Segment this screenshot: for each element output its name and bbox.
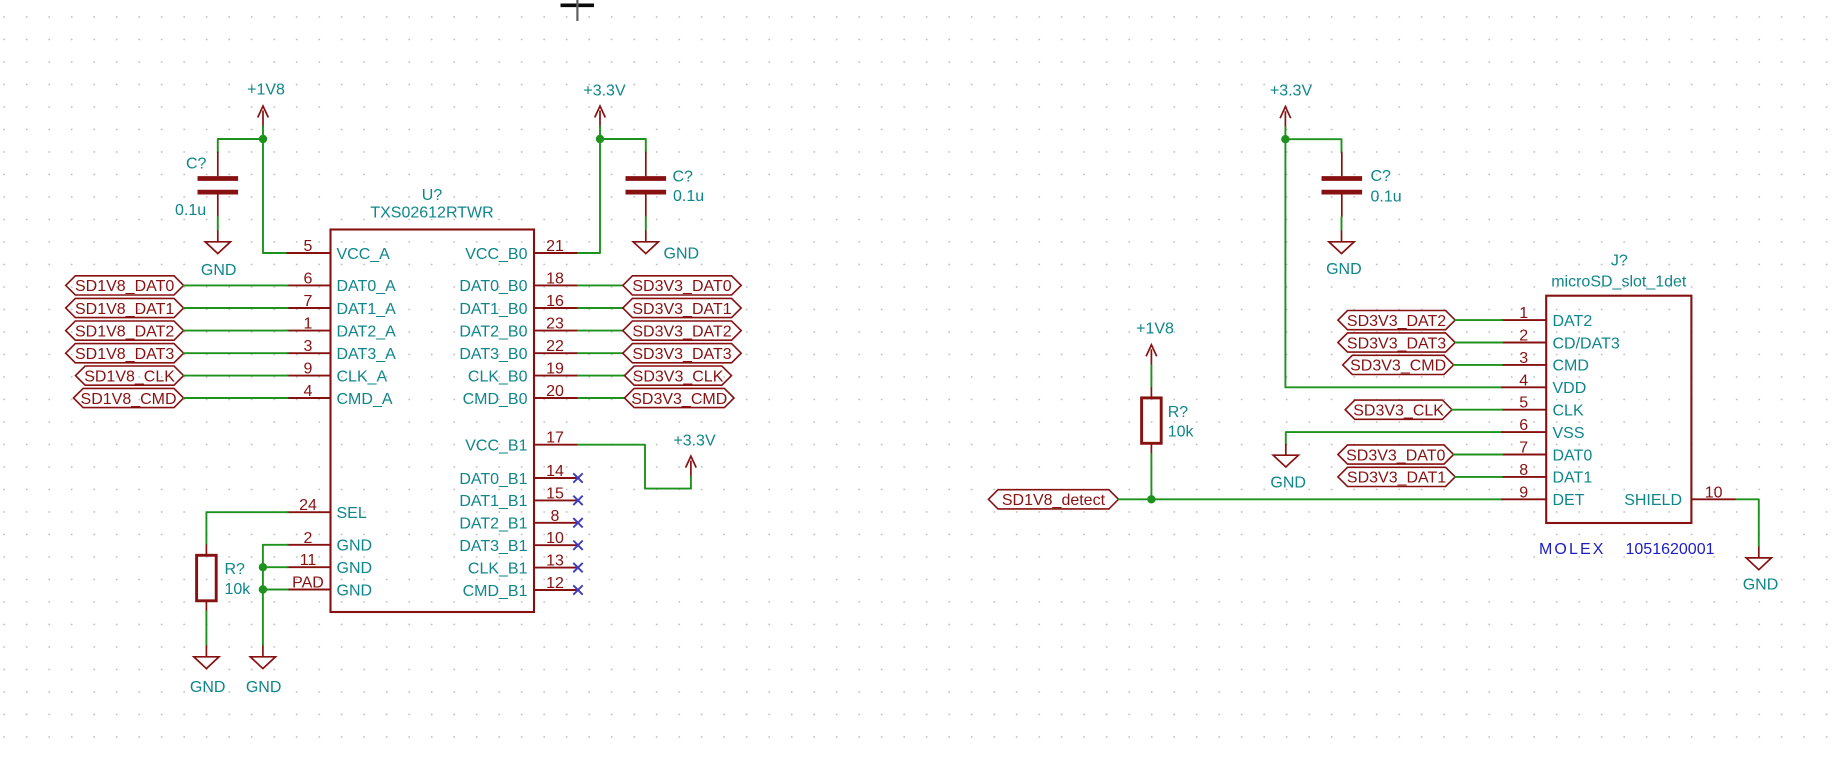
no-connect X on pin 12 CMD_B1 — [573, 585, 582, 594]
U1 pin PAD (GND) left side — [287, 575, 372, 600]
no-connect X on pin 15 DAT1_B1 — [573, 496, 582, 505]
U1 pin 4 (CMD_A) left side — [287, 383, 393, 408]
svg-text:DAT2_B0: DAT2_B0 — [459, 323, 527, 340]
svg-text:GND: GND — [337, 582, 373, 599]
svg-text:U?: U? — [422, 187, 443, 204]
wire SD1V8_DAT2 to U1 — [184, 330, 288, 332]
svg-text:J?: J? — [1611, 253, 1628, 270]
svg-text:10: 10 — [1705, 484, 1723, 501]
wire GND pin 11 stub — [263, 566, 288, 568]
svg-text:1051620001: 1051620001 — [1626, 541, 1715, 558]
wire +3.3V to J1 VDD — [1285, 139, 1502, 387]
wire +1V8 to C? — [218, 139, 263, 152]
wire C? to GND — [217, 217, 219, 231]
power symbol GND (VSS) — [1270, 444, 1306, 491]
svg-text:5: 5 — [304, 238, 313, 255]
svg-text:SD3V3_DAT1: SD3V3_DAT1 — [1347, 470, 1446, 487]
svg-text:CMD_B1: CMD_B1 — [463, 583, 528, 600]
J1 pin 10 (SHIELD) — [1624, 484, 1736, 509]
J1 pin 6 (VSS) — [1501, 417, 1584, 442]
net label SD3V3_DAT0 — [623, 276, 741, 295]
no-connect X on pin 14 DAT0_B1 — [573, 473, 582, 482]
svg-text:SD3V3_DAT0: SD3V3_DAT0 — [632, 278, 731, 295]
wire J1 VSS to GND — [1286, 432, 1502, 444]
svg-text:microSD_slot_1det: microSD_slot_1det — [1551, 273, 1687, 290]
svg-text:12: 12 — [546, 575, 564, 592]
wire +1V8 stub — [262, 127, 264, 140]
svg-text:17: 17 — [546, 430, 564, 447]
svg-text:DAT0_A: DAT0_A — [337, 278, 397, 295]
U1 pin 22 (DAT3_B0) right side — [459, 338, 578, 363]
svg-text:4: 4 — [304, 383, 313, 400]
junction at +3.3V / C2 — [596, 135, 604, 143]
svg-text:13: 13 — [546, 553, 564, 570]
power symbol +1V8 (top left) — [247, 81, 285, 127]
svg-text:DAT3_B1: DAT3_B1 — [459, 538, 527, 555]
U1 pin 21 (VCC_B0) right side — [465, 238, 578, 263]
svg-text:GND: GND — [201, 262, 237, 279]
svg-text:0.1u: 0.1u — [673, 188, 704, 205]
U1 pin 11 (GND) left side — [287, 552, 372, 577]
net label SD1V8_CLK — [76, 366, 184, 385]
svg-text:GND: GND — [337, 538, 373, 555]
svg-text:CMD_A: CMD_A — [337, 391, 393, 408]
power symbol +3.3V (VCC_B1) — [673, 432, 716, 477]
J1 pin 3 (CMD) — [1501, 350, 1589, 375]
svg-text:23: 23 — [546, 316, 564, 333]
svg-text:20: 20 — [546, 383, 564, 400]
wire +3.3V to C2 — [600, 139, 646, 152]
svg-text:SD3V3_DAT3: SD3V3_DAT3 — [632, 346, 731, 363]
junction GND PAD — [259, 585, 267, 593]
svg-text:7: 7 — [304, 293, 313, 310]
wire U1 to SD3V3_CLK — [578, 375, 625, 377]
junction R2 / detect — [1147, 495, 1155, 503]
U1 pin 10 (DAT3_B1) right side — [459, 530, 578, 555]
svg-text:11: 11 — [300, 552, 317, 569]
svg-text:+3.3V: +3.3V — [583, 82, 626, 99]
svg-text:VSS: VSS — [1553, 425, 1585, 442]
svg-text:TXS02612RTWR: TXS02612RTWR — [370, 205, 493, 222]
svg-text:DAT1_B1: DAT1_B1 — [459, 493, 527, 510]
power symbol GND (SHIELD) — [1743, 547, 1779, 594]
wire SD1V8_CLK to U1 — [184, 375, 288, 377]
wire +1V8 to R2 — [1150, 365, 1152, 387]
U1 pin 16 (DAT1_B0) right side — [459, 293, 578, 318]
svg-text:GND: GND — [1326, 261, 1362, 278]
resistor R1 10k — [197, 545, 252, 612]
U1 pin 8 (DAT2_B1) right side — [459, 508, 578, 533]
svg-text:1: 1 — [1519, 305, 1528, 322]
svg-text:DAT2_A: DAT2_A — [337, 323, 397, 340]
wire R1 to GND — [205, 612, 207, 646]
svg-text:SD3V3_CMD: SD3V3_CMD — [1350, 358, 1446, 375]
svg-text:DAT0_B0: DAT0_B0 — [459, 278, 527, 295]
field MOLEX 1051620001 — [1539, 541, 1715, 558]
svg-text:CD/DAT3: CD/DAT3 — [1553, 335, 1620, 352]
svg-text:18: 18 — [546, 270, 564, 287]
wire SD1V8_detect to J1 DET — [1119, 498, 1503, 500]
svg-text:CLK_A: CLK_A — [337, 368, 388, 385]
svg-text:1: 1 — [304, 316, 313, 333]
svg-text:16: 16 — [546, 293, 564, 310]
J1 pin 5 (CLK) — [1501, 395, 1584, 420]
svg-text:22: 22 — [546, 338, 564, 355]
J1 pin 8 (DAT1) — [1501, 462, 1592, 487]
power symbol +3.3V (right) — [1270, 82, 1313, 128]
power symbol GND (below C2) — [633, 231, 699, 263]
J1 pin 9 (DET) — [1501, 484, 1585, 509]
svg-text:21: 21 — [546, 238, 564, 255]
wire VCC_B1 to +3.3V — [578, 445, 691, 489]
wire U1 to SD3V3_DAT1 — [578, 307, 623, 309]
svg-text:9: 9 — [304, 361, 313, 378]
svg-text:SD3V3_DAT2: SD3V3_DAT2 — [632, 323, 731, 340]
svg-text:+3.3V: +3.3V — [673, 432, 716, 449]
connector J1 microSD_slot_1det body — [1546, 253, 1691, 523]
wire SD1V8_DAT3 to U1 — [184, 352, 288, 354]
net label SD3V3_DAT1 — [623, 298, 741, 317]
svg-text:SD3V3_DAT0: SD3V3_DAT0 — [1346, 447, 1445, 464]
net label SD3V3_CLK — [625, 366, 732, 385]
U1 pin 18 (DAT0_B0) right side — [459, 270, 578, 295]
svg-text:DAT3_B0: DAT3_B0 — [459, 346, 527, 363]
net label SD3V3_DAT1 (right) — [1338, 467, 1455, 486]
svg-text:CLK_B1: CLK_B1 — [468, 560, 528, 577]
svg-text:4: 4 — [1519, 372, 1528, 389]
svg-text:CLK_B0: CLK_B0 — [468, 368, 528, 385]
power symbol +1V8 (right) — [1136, 320, 1174, 366]
svg-text:GND: GND — [1743, 576, 1779, 593]
wire SHIELD to GND — [1736, 499, 1758, 546]
svg-text:24: 24 — [299, 497, 317, 514]
svg-text:VCC_A: VCC_A — [337, 246, 391, 263]
svg-text:8: 8 — [551, 508, 560, 525]
wire SD3V3_DAT0 to J1 — [1454, 454, 1503, 456]
power symbol GND (below U1 GND pins) — [246, 646, 282, 697]
svg-text:+3.3V: +3.3V — [1270, 82, 1313, 99]
U1 pin 20 (CMD_B0) right side — [463, 383, 578, 408]
wire U1 to SD3V3_CMD — [578, 397, 625, 399]
svg-text:SD3V3_DAT2: SD3V3_DAT2 — [1347, 313, 1446, 330]
svg-text:SD1V8_DAT1: SD1V8_DAT1 — [75, 301, 174, 318]
wire U1 to SD3V3_DAT0 — [578, 284, 623, 286]
svg-text:SHIELD: SHIELD — [1624, 492, 1682, 509]
svg-text:10k: 10k — [225, 581, 252, 598]
U1 pin 23 (DAT2_B0) right side — [459, 316, 578, 341]
wire C2 to GND — [645, 217, 647, 231]
wire SD3V3_DAT2 to J1 — [1455, 319, 1502, 321]
svg-text:VDD: VDD — [1553, 380, 1587, 397]
svg-text:DAT1: DAT1 — [1553, 470, 1593, 487]
net label SD3V3_DAT2 (right) — [1338, 311, 1455, 330]
U1 pin 15 (DAT1_B1) right side — [459, 485, 578, 510]
wire +1V8 to VCC_A pin — [263, 139, 288, 253]
svg-text:DAT0_B1: DAT0_B1 — [459, 471, 527, 488]
svg-text:SD1V8_DAT0: SD1V8_DAT0 — [75, 278, 174, 295]
wire SD1V8_DAT0 to U1 — [184, 284, 288, 286]
op-amp/IC U1 TXS02612RTWR body — [331, 187, 535, 612]
svg-text:VCC_B1: VCC_B1 — [465, 437, 527, 454]
junction at +1V8 / C? / U? VCC_A — [259, 135, 267, 143]
wire U1 to SD3V3_DAT2 — [578, 330, 623, 332]
wire SD3V3_DAT3 to J1 — [1455, 342, 1502, 344]
wire U1 to SD3V3_DAT3 — [578, 352, 623, 354]
wire C3 to GND — [1341, 217, 1343, 231]
svg-text:DAT0: DAT0 — [1553, 447, 1593, 464]
power symbol GND (below C3) — [1326, 231, 1362, 278]
svg-text:C?: C? — [673, 168, 694, 185]
svg-text:+1V8: +1V8 — [1136, 320, 1174, 337]
wire GND PAD stub — [263, 589, 288, 591]
J1 pin 2 (CD/DAT3) — [1501, 328, 1620, 353]
resistor R2 10k — [1142, 387, 1195, 454]
svg-text:2: 2 — [304, 530, 313, 547]
svg-text:19: 19 — [546, 361, 564, 378]
wire SD3V3_CMD to J1 — [1454, 364, 1503, 366]
U1 pin 14 (DAT0_B1) right side — [459, 463, 578, 488]
wire R2 to DET net — [1150, 454, 1152, 499]
no-connect X on pin 8 DAT2_B1 — [573, 518, 582, 527]
J1 pin 7 (DAT0) — [1501, 440, 1592, 465]
svg-text:10k: 10k — [1168, 423, 1195, 440]
no-connect X on pin 10 DAT3_B1 — [573, 541, 582, 550]
U1 pin 9 (CLK_A) left side — [287, 361, 388, 386]
wire VCC_B0 to +3.3V — [578, 139, 600, 253]
svg-text:R?: R? — [1168, 404, 1189, 421]
power symbol +3.3V (above U1) — [583, 82, 626, 127]
wire SD1V8_CMD to U1 — [184, 397, 288, 399]
net label SD3V3_DAT3 (right) — [1338, 333, 1455, 352]
U1 pin 6 (DAT0_A) left side — [287, 270, 397, 295]
U1 pin 5 (VCC_A) left side — [287, 238, 391, 263]
svg-text:6: 6 — [304, 270, 313, 287]
svg-text:VCC_B0: VCC_B0 — [465, 246, 527, 263]
U1 pin 19 (CLK_B0) right side — [468, 361, 578, 386]
svg-text:SD1V8_CMD: SD1V8_CMD — [81, 391, 177, 408]
wire +3.3V stub — [599, 127, 601, 140]
svg-text:DAT1_B0: DAT1_B0 — [459, 301, 527, 318]
svg-text:C?: C? — [1371, 168, 1392, 185]
svg-text:SEL: SEL — [337, 505, 367, 522]
svg-text:14: 14 — [546, 463, 564, 480]
svg-text:R?: R? — [225, 561, 246, 578]
svg-text:0.1u: 0.1u — [175, 202, 206, 219]
svg-text:2: 2 — [1519, 328, 1528, 345]
U1 pin 7 (DAT1_A) left side — [287, 293, 397, 318]
net label SD3V3_CMD — [625, 388, 735, 407]
U1 pin 24 (SEL) left side — [287, 497, 367, 522]
net label SD3V3_DAT0 (right) — [1338, 445, 1454, 464]
wire SD3V3_CLK to J1 — [1452, 409, 1502, 411]
J1 pin 4 (VDD) — [1501, 372, 1586, 397]
net label SD1V8_CMD — [74, 388, 184, 407]
svg-text:DET: DET — [1553, 492, 1585, 509]
power symbol GND (below C1) — [201, 231, 237, 280]
junction at +3.3V / C3 — [1281, 135, 1289, 143]
svg-text:GND: GND — [190, 679, 226, 696]
svg-text:GND: GND — [337, 560, 373, 577]
svg-text:C?: C? — [186, 156, 207, 173]
svg-text:SD1V8_detect: SD1V8_detect — [1002, 492, 1106, 509]
U1 pin 12 (CMD_B1) right side — [463, 575, 578, 600]
capacitor C1 0.1u — [175, 152, 238, 219]
U1 pin 17 (VCC_B1) right side — [465, 430, 578, 455]
svg-text:6: 6 — [1519, 417, 1528, 434]
power symbol GND (below R1) — [190, 646, 226, 697]
svg-text:3: 3 — [1519, 350, 1528, 367]
svg-text:MOLEX: MOLEX — [1539, 541, 1606, 558]
capacitor C2 0.1u — [626, 152, 705, 218]
svg-text:+1V8: +1V8 — [247, 81, 285, 98]
svg-text:GND: GND — [664, 245, 700, 262]
svg-text:8: 8 — [1519, 462, 1528, 479]
svg-text:SD1V8_DAT2: SD1V8_DAT2 — [75, 323, 174, 340]
wire +3.3V stub 2 — [690, 477, 692, 489]
wire +3.3V stub 3 — [1284, 127, 1286, 139]
svg-text:SD3V3_CLK: SD3V3_CLK — [633, 368, 724, 385]
svg-text:7: 7 — [1519, 440, 1528, 457]
net label SD1V8_DAT3 — [66, 344, 184, 363]
svg-text:DAT3_A: DAT3_A — [337, 346, 397, 363]
svg-text:9: 9 — [1519, 484, 1528, 501]
net label SD3V3_CMD (right) — [1343, 355, 1454, 374]
junction GND pin 11 — [259, 563, 267, 571]
svg-text:SD3V3_DAT3: SD3V3_DAT3 — [1347, 335, 1446, 352]
U1 pin 3 (DAT3_A) left side — [287, 338, 397, 363]
capacitor C3 0.1u — [1322, 152, 1402, 218]
svg-text:SD1V8_DAT3: SD1V8_DAT3 — [75, 346, 174, 363]
wire SD3V3_DAT1 to J1 — [1455, 476, 1502, 478]
U1 pin 2 (GND) left side — [287, 530, 372, 555]
wire SEL to R1 — [206, 512, 287, 544]
svg-text:3: 3 — [304, 338, 313, 355]
wire +3.3V to C3 — [1285, 139, 1341, 152]
wire U1 GND pins to GND — [263, 545, 288, 646]
net label SD3V3_DAT2 — [623, 321, 741, 340]
svg-text:CMD_B0: CMD_B0 — [463, 391, 528, 408]
svg-text:DAT2: DAT2 — [1553, 313, 1593, 330]
net label SD3V3_CLK (right) — [1345, 400, 1452, 419]
no-connect X on pin 13 CLK_B1 — [573, 563, 582, 572]
svg-text:GND: GND — [246, 679, 282, 696]
svg-text:SD3V3_DAT1: SD3V3_DAT1 — [632, 301, 731, 318]
svg-text:CMD: CMD — [1553, 358, 1589, 375]
net label SD1V8_DAT2 — [66, 321, 184, 340]
svg-text:0.1u: 0.1u — [1371, 188, 1402, 205]
net label SD1V8_DAT0 — [66, 276, 184, 295]
net label SD1V8_detect — [988, 490, 1118, 509]
svg-text:15: 15 — [546, 485, 564, 502]
svg-text:5: 5 — [1519, 395, 1528, 412]
svg-text:10: 10 — [546, 530, 564, 547]
svg-text:SD3V3_CLK: SD3V3_CLK — [1353, 402, 1444, 419]
J1 pin 1 (DAT2) — [1501, 305, 1592, 330]
U1 pin 13 (CLK_B1) right side — [468, 553, 578, 578]
svg-text:GND: GND — [1270, 474, 1306, 491]
svg-text:CLK: CLK — [1553, 402, 1584, 419]
svg-text:SD1V8_CLK: SD1V8_CLK — [84, 368, 175, 385]
svg-text:DAT2_B1: DAT2_B1 — [459, 516, 527, 533]
U1 pin 1 (DAT2_A) left side — [287, 316, 397, 341]
cursor crosshair — [561, 0, 595, 21]
svg-text:PAD: PAD — [292, 575, 324, 592]
net label SD3V3_DAT3 — [623, 344, 741, 363]
svg-text:DAT1_A: DAT1_A — [337, 301, 397, 318]
svg-text:SD3V3_CMD: SD3V3_CMD — [631, 391, 727, 408]
wire SD1V8_DAT1 to U1 — [184, 307, 288, 309]
net label SD1V8_DAT1 — [66, 298, 184, 317]
